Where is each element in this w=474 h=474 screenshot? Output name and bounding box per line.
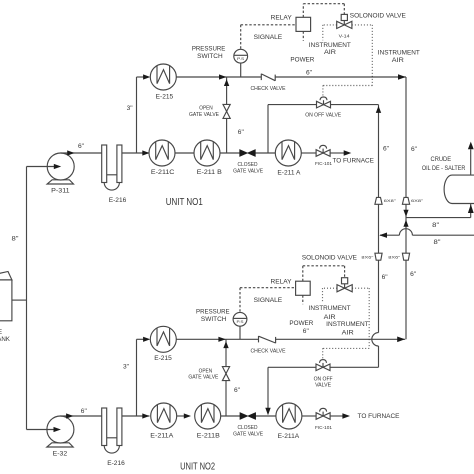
svg-text:E-211 A: E-211 A [277,170,301,177]
reducer 6x8 line B upper [402,197,424,204]
pipe: 8in desalter feed [406,217,471,219]
pipe: unit1 main line through exchangers [255,152,275,154]
exchanger E-211C [149,140,175,176]
gate valve open (unit1) [189,104,230,118]
flow arrow up line B below junction [403,220,408,227]
reducer 6x8 line A upper [375,197,397,204]
svg-text:6": 6" [382,274,388,281]
check valve (unit2) [251,336,287,354]
pump E-32 [47,416,74,458]
svg-text:8": 8" [12,236,19,243]
svg-text:SIGNALE: SIGNALE [254,34,283,41]
pipe: 8in suction header (left vertical) [26,167,28,430]
svg-text:E-211A: E-211A [278,433,300,440]
svg-text:ON OFF VALVE: ON OFF VALVE [305,112,342,118]
svg-text:E-211C: E-211C [151,169,175,176]
svg-text:SWITCH: SWITCH [201,316,227,323]
signal dashed: relay to solenoid (unit2) [302,266,304,281]
svg-text:AIR: AIR [324,314,336,321]
signal dashed: relay power stub (unit1) [302,31,304,40]
svg-text:FIC-101: FIC-101 [315,161,332,166]
svg-text:V-14: V-14 [339,34,351,39]
exchanger E-216 (unit2) [102,408,126,467]
svg-text:TO FURNACE: TO FURNACE [358,413,401,420]
svg-text:8": 8" [434,239,441,246]
svg-text:E-216: E-216 [107,460,125,467]
air dotted: solenoid to on-off valve actuator (unit1) [352,24,372,26]
signal dashed: relay to solenoid (unit1) [302,4,304,18]
desalter vessel [422,156,474,204]
svg-text:RELAY: RELAY [271,14,293,21]
svg-text:OIL DE - SALTER: OIL DE - SALTER [422,165,466,172]
solenoid valve (unit2) [302,254,357,291]
pipe: to furnace (unit2) [330,415,342,417]
svg-text:OPEN: OPEN [199,368,213,374]
pipe: E-215 outlet to junction (unit1) [176,76,226,78]
pressure switch bubble (unit2) [196,308,247,326]
svg-text:6": 6" [410,271,416,278]
pipe: E-215 inlet (unit2) [137,338,145,340]
svg-text:CHECK VALVE: CHECK VALVE [251,86,287,92]
pipe: tank outlet stub [12,299,27,301]
svg-text:PRESSURE: PRESSURE [196,308,230,315]
svg-text:TANK: TANK [0,337,10,343]
svg-text:6": 6" [238,129,244,136]
exchanger E-211A (unit1) [275,140,301,177]
hop: line A over unit2 header [372,333,379,346]
gate valve closed (unit1) [233,150,264,175]
pipe: E-32 suction [27,429,59,431]
reducer 8x6 line B lower [388,253,409,260]
svg-text:3": 3" [123,364,129,371]
svg-text:E-215: E-215 [154,355,172,362]
pipe: E-32 discharge 6in [60,415,101,417]
svg-text:SOLONOID VALVE: SOLONOID VALVE [350,13,406,20]
control valve FIC-101 (unit2) [315,408,332,430]
pipe: E-215 inlet (unit1) [137,76,145,78]
pipe: P-311 suction [27,166,59,168]
svg-text:INSTRUMENT: INSTRUMENT [378,50,420,57]
pipe: open gate valve drop unit1 [226,77,228,153]
pipe: E-215 outlet to junction (unit2) [176,338,226,340]
tank T-1 (crude tank, partially off-canvas) [0,272,12,344]
exchanger E-215 (unit1) [150,64,176,101]
svg-text:E-211 B: E-211 B [197,169,222,176]
pipe: on-off valve line (unit1) [268,104,379,106]
svg-text:OPEN: OPEN [199,106,213,112]
valve on-off (unit1) [305,97,342,119]
signal dashed: relay power stub (unit2) [302,295,304,304]
pipe: E-211A to FIC valve (unit1) [301,152,316,154]
exchanger E-211A (unit2 first) [150,403,176,440]
svg-text:RELAY: RELAY [271,278,293,285]
pipe: unit2 main line [255,415,276,417]
svg-text:GATE VALVE: GATE VALVE [233,431,264,437]
pipe between unit2 exchangers [177,415,184,417]
svg-text:INSTRUMENT: INSTRUMENT [309,305,351,312]
svg-text:UNIT NO1: UNIT NO1 [166,197,203,208]
svg-text:POWER: POWER [289,320,313,327]
pipe: unit2 top header 6in [226,338,259,340]
svg-text:6": 6" [411,146,417,153]
svg-text:CHECK VALVE: CHECK VALVE [251,348,287,354]
pipe: 8in desalter outlet with hop over line B [412,234,474,236]
air dotted: solenoid to instrument air label (unit1) [323,24,337,26]
svg-text:INSTRUMENT: INSTRUMENT [326,321,369,328]
pump P-311 [47,153,74,194]
pipe between E-211C and E-211B [175,152,194,154]
exchanger E-211B (unit1) [194,140,222,176]
svg-text:E-32: E-32 [53,451,68,458]
svg-text:SOLONOID VALVE: SOLONOID VALVE [302,254,357,261]
svg-text:AIR: AIR [392,57,404,64]
pipe: desalter vapor nozzle [470,149,472,175]
svg-text:8X6": 8X6" [388,255,401,259]
pipe: open gate valve drop unit2 [225,339,227,416]
flow arrow up line A [376,106,381,113]
svg-text:P.S: P.S [237,320,245,324]
exchanger E-211A (unit2 third) [276,403,302,440]
svg-text:UNIT NO2: UNIT NO2 [180,461,215,472]
pipe: P-311 discharge 6in [61,152,102,154]
exchanger E-215 (unit2) [150,326,176,362]
gate valve open (unit2) [188,367,229,381]
svg-text:E-215: E-215 [156,94,174,101]
pipe: on-off valve line (unit2) [268,366,379,368]
svg-text:6": 6" [383,146,389,153]
svg-text:VALVE: VALVE [315,382,332,388]
pipe: unit1 top header 6in to desalter [227,76,262,78]
pressure switch bubble (unit1) [192,45,248,63]
svg-text:CRUDE: CRUDE [431,156,452,163]
svg-text:FIC-101: FIC-101 [315,425,332,430]
pipe: line A vertical (desalter return) [378,105,380,333]
svg-text:6": 6" [303,328,309,335]
svg-text:GATE VALVE: GATE VALVE [233,168,264,174]
svg-text:AIR: AIR [342,329,354,336]
pipe: E-216 outlet to E-211A (unit2) [122,415,150,417]
svg-text:TO FURNACE: TO FURNACE [332,158,374,165]
svg-text:P-311: P-311 [51,187,70,194]
svg-text:P.S: P.S [237,57,245,61]
svg-text:6X8": 6X8" [411,199,424,203]
relay box (unit2) [271,278,311,295]
solenoid valve V-14 (unit1) [337,13,406,39]
svg-text:GATE VALVE: GATE VALVE [188,375,219,381]
pipe: line B vertical (6in/8in to desalter) [405,77,407,339]
svg-text:CLOSED: CLOSED [238,425,258,431]
svg-text:E-216: E-216 [109,197,127,204]
svg-text:POWER: POWER [290,56,314,63]
check valve (unit1) [251,74,287,92]
pipe: 3in riser to E-215 (unit2) [136,339,138,416]
svg-text:SWITCH: SWITCH [197,53,223,60]
flow arrow down line B [403,210,408,217]
air dotted: solenoid to on-off valve actuator (unit2) [352,287,369,289]
pipe: to furnace (unit1) [330,152,344,154]
signal dashed: PS to relay (unit2) [239,288,241,313]
svg-text:E-211B: E-211B [197,433,220,440]
svg-text:6": 6" [78,143,84,150]
wire: PS stem to header (unit1) [240,63,242,77]
pipe: E-216 outlet to E-211C [122,152,150,154]
air dotted: solenoid to instrument air label (unit2) [323,287,338,289]
pipe: E-211A to FIC valve (unit2) [302,415,316,417]
svg-text:6": 6" [234,387,240,394]
wire: PS stem to header (unit2) [239,326,241,339]
svg-text:AIR: AIR [324,49,336,56]
svg-text:GATE VALVE: GATE VALVE [189,112,220,118]
svg-text:SIGNALE: SIGNALE [254,297,283,304]
pipe: 3in riser to E-215 (unit1) [136,77,138,153]
svg-text:3": 3" [127,105,133,112]
svg-text:8": 8" [432,222,439,229]
svg-text:E-211A: E-211A [150,433,174,440]
signal dashed: PS to relay (unit1) [240,25,242,49]
svg-text:6": 6" [81,408,87,415]
reducer 8x6 line A lower [361,253,382,260]
relay box (unit1) [271,14,311,31]
svg-text:CRUDE: CRUDE [0,330,2,336]
exchanger E-211B (unit2) [195,403,221,440]
svg-text:8X6": 8X6" [361,255,374,259]
svg-text:CLOSED: CLOSED [238,162,258,168]
gate valve closed (unit2) [233,413,264,438]
exchanger E-216 (unit 1) [102,145,127,204]
valve on-off (unit2) [314,360,333,389]
control valve FIC-101 (unit1) [315,145,332,166]
svg-text:6": 6" [306,70,312,77]
svg-text:6X8": 6X8" [384,199,397,203]
svg-text:PRESSURE: PRESSURE [192,45,226,52]
